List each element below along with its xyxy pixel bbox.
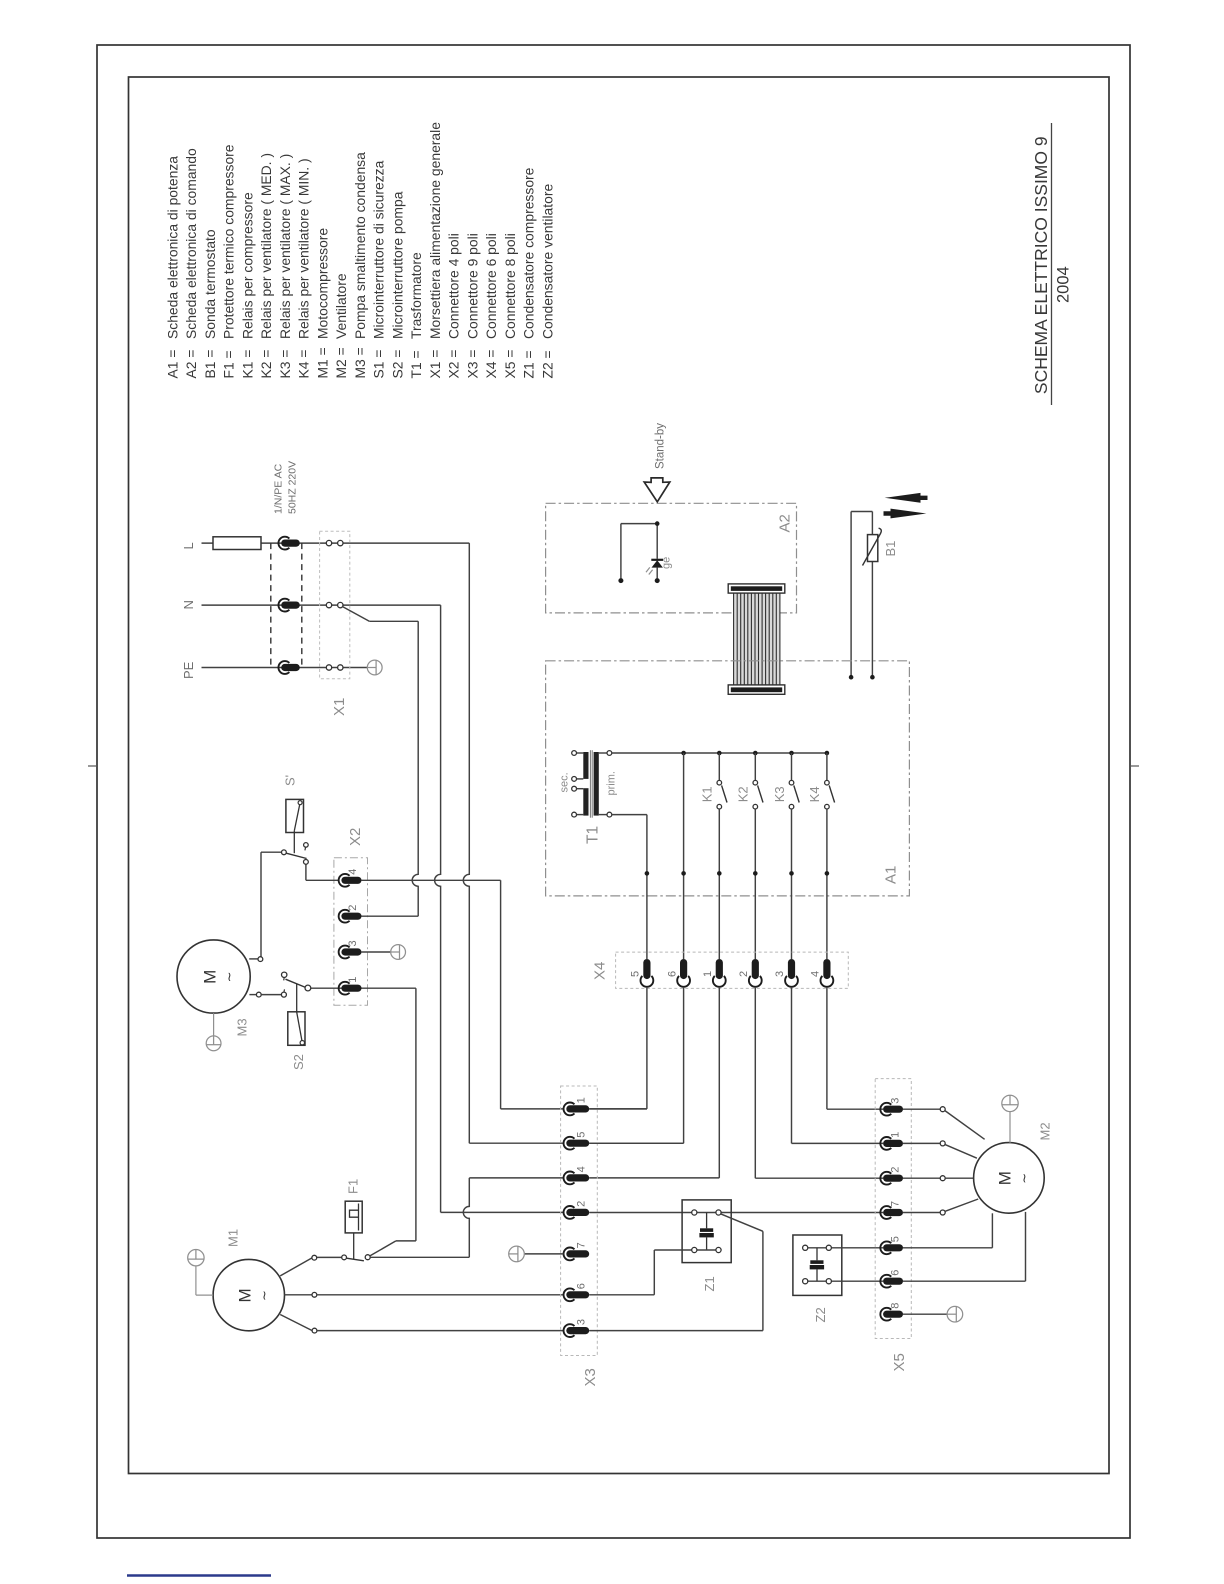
wire X2 pin3 to ground bbox=[362, 951, 391, 953]
connector X5 pin 5 bbox=[880, 1241, 891, 1254]
svg-text:4: 4 bbox=[810, 971, 822, 977]
wire L vertical bbox=[463, 543, 469, 1143]
LED ge bbox=[651, 559, 663, 561]
svg-text:sec.: sec. bbox=[559, 772, 571, 792]
motor M1 bbox=[213, 1259, 284, 1330]
connector X3 pin 2 bbox=[564, 1206, 575, 1219]
board A2 bbox=[546, 503, 797, 613]
wire X5 pin8 to ground bbox=[903, 1313, 947, 1315]
connector X4 pin 1 bbox=[713, 976, 726, 987]
svg-text:50HZ 220V: 50HZ 220V bbox=[287, 461, 299, 514]
svg-text:Ventilatore: Ventilatore bbox=[333, 273, 349, 339]
svg-text:M3 =: M3 = bbox=[352, 347, 368, 378]
junction A1 edge bbox=[789, 871, 794, 876]
svg-text:Condensatore ventilatore: Condensatore ventilatore bbox=[539, 184, 555, 339]
svg-text:M2 =: M2 = bbox=[333, 347, 349, 378]
svg-text:6: 6 bbox=[666, 971, 678, 977]
svg-text:4: 4 bbox=[576, 1166, 588, 1172]
svg-text:Scheda elettronica di comando: Scheda elettronica di comando bbox=[183, 148, 199, 339]
connector X4 pin 4 bbox=[821, 976, 834, 987]
junction A1 edge bbox=[645, 871, 650, 876]
capacitor Z2 box bbox=[793, 1235, 842, 1295]
connector X3 pin 6 bbox=[564, 1288, 575, 1301]
connector X3 pin 1 bbox=[564, 1103, 575, 1116]
wire riser X4 pin1 to K1 bbox=[718, 809, 720, 959]
svg-text:Relais per ventilatore ( MIN.: Relais per ventilatore ( MIN. ) bbox=[296, 158, 312, 339]
connector X2 pin 4 bbox=[339, 874, 350, 887]
svg-text:6: 6 bbox=[576, 1283, 588, 1289]
X1 terminals L bbox=[326, 540, 331, 545]
switch F1 contacts bbox=[317, 1256, 342, 1258]
wire Z1 bottom bbox=[654, 1249, 718, 1251]
svg-text:K2 =: K2 = bbox=[258, 350, 274, 379]
ground X2 pin3 bbox=[391, 945, 406, 960]
svg-text:K2: K2 bbox=[736, 786, 751, 802]
svg-text:Morsettiera alimentazione gene: Morsettiera alimentazione generale bbox=[427, 122, 443, 339]
svg-text:A2: A2 bbox=[777, 514, 794, 532]
X1 terminals N bbox=[326, 602, 331, 607]
page outer border bbox=[97, 45, 1130, 1538]
connector X5 pin 3 bbox=[880, 1103, 891, 1116]
svg-text:Connettore 6 poli: Connettore 6 poli bbox=[483, 233, 499, 339]
svg-text:K1: K1 bbox=[700, 786, 715, 802]
svg-text:2: 2 bbox=[890, 1167, 902, 1173]
svg-text:K3: K3 bbox=[772, 786, 787, 802]
legend row T1 bbox=[408, 252, 424, 378]
LED wiring in A2 bbox=[621, 523, 657, 525]
svg-text:S2 =: S2 = bbox=[389, 350, 405, 379]
svg-text:X3 =: X3 = bbox=[464, 350, 480, 379]
relay contact K3 bbox=[789, 753, 799, 809]
supply label 1/N/PE AC 50HZ 220V bbox=[273, 461, 299, 514]
wire riser X4 pin2 to K2 bbox=[754, 809, 756, 959]
Z2 terminals bbox=[803, 1245, 808, 1250]
svg-text:X2: X2 bbox=[347, 828, 364, 846]
wire X3 pin7 to ground bbox=[525, 1253, 564, 1255]
svg-text:M3: M3 bbox=[235, 1018, 250, 1036]
svg-text:5: 5 bbox=[630, 971, 642, 977]
wire L to X3 pin5 bbox=[469, 1142, 563, 1144]
wire Z2 top to X5 pin5 bbox=[805, 1247, 883, 1249]
capacitor Z2 element bbox=[816, 1248, 818, 1261]
svg-text:3: 3 bbox=[890, 1098, 902, 1104]
svg-text:S1 =: S1 = bbox=[371, 350, 387, 379]
switch S2 contacts bbox=[281, 992, 286, 997]
wire M3 bottom terminal bbox=[249, 994, 256, 996]
svg-text:M1: M1 bbox=[226, 1229, 241, 1247]
connector X3 pin 4 bbox=[564, 1172, 575, 1185]
junction A1 edge bbox=[717, 871, 722, 876]
wire X3 pin4 left vertical bbox=[463, 1178, 469, 1257]
junction dots A2 LED bbox=[655, 521, 660, 526]
wire L bbox=[202, 542, 470, 544]
wire F1 to X2 pin1 branch bbox=[370, 1241, 396, 1256]
legend row X4 bbox=[483, 233, 499, 378]
transformer T1 primary winding bbox=[594, 752, 599, 816]
thermal protector F1 bbox=[345, 1201, 362, 1233]
transformer T1 secondary terminals bbox=[576, 752, 583, 754]
svg-text:A1 =: A1 = bbox=[164, 350, 180, 379]
wire X4 pin3 to X5 pin1 bbox=[791, 987, 793, 1144]
svg-text:K4 =: K4 = bbox=[296, 350, 312, 379]
transformer T1 core bbox=[589, 750, 591, 818]
transformer T1 primary terminals bbox=[599, 752, 607, 754]
svg-text:1: 1 bbox=[347, 977, 359, 983]
svg-text:X5 =: X5 = bbox=[502, 350, 518, 379]
svg-text:Stand-by: Stand-by bbox=[655, 423, 667, 469]
svg-text:Motocompressore: Motocompressore bbox=[314, 228, 330, 339]
stand-by arrow bbox=[644, 478, 670, 502]
svg-text:7: 7 bbox=[576, 1242, 588, 1248]
connector X2 pin 1 bbox=[339, 982, 350, 995]
plug-socket PE bbox=[278, 661, 289, 674]
wire N branch vertical bbox=[412, 621, 418, 916]
svg-text:prim.: prim. bbox=[606, 771, 618, 795]
svg-text:1: 1 bbox=[576, 1097, 588, 1103]
wire X5 pin1 to M2 bbox=[903, 1142, 940, 1144]
svg-text:F1: F1 bbox=[346, 1179, 361, 1194]
plug-socket L bbox=[278, 537, 289, 550]
junction dots B1 to A1 bbox=[849, 675, 854, 680]
wire X3 pin4 left horizontal bbox=[469, 1177, 563, 1179]
legend row K1 bbox=[239, 192, 255, 378]
svg-text:A1: A1 bbox=[883, 866, 900, 884]
svg-text:1/N/PE AC: 1/N/PE AC bbox=[273, 463, 285, 514]
svg-text:ge: ge bbox=[661, 557, 673, 569]
dashed plug boundary bbox=[270, 543, 272, 667]
svg-text:M2: M2 bbox=[1038, 1122, 1053, 1140]
wire Z1 to X3 pin3 bbox=[721, 1214, 763, 1231]
svg-text:Sonda termostato: Sonda termostato bbox=[202, 229, 218, 339]
svg-text:X3: X3 bbox=[582, 1368, 599, 1386]
Z1 terminals bbox=[692, 1210, 697, 1215]
wire M1 middle terminal bbox=[285, 1294, 313, 1296]
centre tick right bbox=[1130, 765, 1139, 767]
legend row A2 bbox=[183, 148, 199, 379]
wire X3 pin2 to Z1 and X5 pin7 bbox=[589, 1212, 883, 1214]
wire X4 pin5 to X3 pin1 bbox=[646, 987, 648, 1109]
svg-text:B1: B1 bbox=[883, 541, 898, 557]
X1 terminals PE bbox=[326, 665, 331, 670]
legend row K2 bbox=[258, 153, 274, 379]
svg-text:∼: ∼ bbox=[257, 1290, 272, 1301]
junction rail bbox=[681, 751, 686, 756]
wire riser X4 pin4 to K4 bbox=[826, 809, 828, 959]
transformer T1 secondary winding bbox=[583, 752, 588, 779]
relay contact K1 bbox=[717, 753, 727, 809]
svg-text:PE: PE bbox=[181, 661, 196, 679]
svg-text:5: 5 bbox=[576, 1132, 588, 1138]
page inner border bbox=[129, 77, 1110, 1474]
ground PE bbox=[367, 660, 382, 675]
wire riser X4 pin6 to rail bbox=[683, 753, 685, 959]
svg-text:S': S' bbox=[283, 775, 298, 786]
svg-text:Pompa smaltimento condensa: Pompa smaltimento condensa bbox=[352, 152, 368, 339]
wire X3 pin1 to X4 riser bbox=[589, 1108, 647, 1110]
svg-text:T1 =: T1 = bbox=[408, 350, 424, 378]
wire X2pin4 vertical bbox=[500, 880, 502, 1109]
svg-text:∼: ∼ bbox=[221, 971, 236, 982]
svg-text:K4: K4 bbox=[807, 786, 822, 802]
capacitor Z1 box bbox=[682, 1200, 731, 1263]
svg-text:L: L bbox=[181, 542, 196, 549]
svg-text:Connettore 4 poli: Connettore 4 poli bbox=[446, 233, 462, 339]
connector X5 pin 7 bbox=[880, 1206, 891, 1219]
svg-text:X4 =: X4 = bbox=[483, 350, 499, 379]
svg-text:X4: X4 bbox=[592, 962, 609, 980]
legend row M1 bbox=[314, 228, 330, 379]
wire M3 top terminal bbox=[249, 958, 258, 960]
svg-text:Protettore termico compressore: Protettore termico compressore bbox=[221, 144, 237, 339]
junction rail bbox=[753, 751, 758, 756]
ground X3 pin7 bbox=[509, 1246, 525, 1262]
blue footer mark bbox=[127, 1574, 271, 1577]
wire X2 pin1 riser bbox=[415, 988, 417, 1241]
junction A1 edge bbox=[681, 871, 686, 876]
svg-text:2: 2 bbox=[347, 905, 359, 911]
microswitch S2 body bbox=[296, 984, 298, 1012]
centre tick left bbox=[88, 765, 97, 767]
junction rail bbox=[717, 751, 722, 756]
wire B1 right bbox=[871, 512, 873, 535]
plug-socket N bbox=[278, 599, 289, 612]
svg-text:N: N bbox=[181, 600, 196, 609]
connector X5 pin 1 bbox=[880, 1137, 891, 1150]
connector X3 pin 5 bbox=[564, 1137, 575, 1150]
connector X3 outline bbox=[561, 1086, 598, 1356]
svg-text:M: M bbox=[236, 1288, 255, 1302]
svg-text:2: 2 bbox=[576, 1201, 588, 1207]
wire N vertical bbox=[435, 605, 441, 1212]
wire F1 to X3 pin4 branch bbox=[370, 1256, 469, 1258]
connector X2 pin 3 bbox=[339, 946, 350, 959]
legend row X1 bbox=[427, 122, 443, 379]
wire X4 pin4 to X5 pin3 bbox=[826, 987, 828, 1109]
svg-text:3: 3 bbox=[774, 971, 786, 977]
wire M3 to S-prime bbox=[260, 852, 262, 956]
wire X4 pin2 to X5 pin2 bbox=[754, 987, 756, 1178]
svg-text:Relais per ventilatore ( MED.: Relais per ventilatore ( MED. ) bbox=[258, 153, 274, 339]
svg-text:1: 1 bbox=[702, 971, 714, 977]
svg-text:6: 6 bbox=[890, 1270, 902, 1276]
wire X3 pin6 right bbox=[589, 1294, 654, 1296]
svg-text:∼: ∼ bbox=[1017, 1173, 1032, 1184]
wire F1 stem bbox=[353, 1233, 355, 1259]
legend row X5 bbox=[502, 233, 518, 378]
svg-text:Relais per compressore: Relais per compressore bbox=[239, 192, 255, 339]
wire B1 left bbox=[850, 512, 852, 678]
connector X4 pin 2 bbox=[749, 976, 762, 987]
wire X2 pin4 feed bbox=[305, 864, 307, 880]
svg-text:1: 1 bbox=[890, 1132, 902, 1138]
svg-text:M1 =: M1 = bbox=[314, 347, 330, 378]
legend row F1 bbox=[221, 144, 237, 378]
svg-text:K1 =: K1 = bbox=[239, 350, 255, 379]
wire X4 pin6 to X3 pin5 bbox=[683, 987, 685, 1143]
svg-text:Microinterruttore di sicurezza: Microinterruttore di sicurezza bbox=[371, 160, 387, 339]
svg-text:7: 7 bbox=[890, 1201, 902, 1207]
wire M1 bottom to X3 pin3 bbox=[317, 1330, 564, 1332]
legend row M2 bbox=[333, 273, 349, 378]
svg-text:5: 5 bbox=[890, 1236, 902, 1242]
sensor arrow upper (left) bbox=[885, 493, 928, 503]
capacitor Z1 element bbox=[706, 1213, 708, 1229]
title SCHEMA ELETTRICO ISSIMO 9 bbox=[1031, 123, 1052, 405]
wire PE bbox=[202, 667, 368, 669]
motor M2 bbox=[974, 1143, 1045, 1214]
connector X4 pin 6 bbox=[677, 976, 690, 987]
motor M3 bbox=[177, 940, 250, 1013]
svg-text:F1 =: F1 = bbox=[221, 350, 237, 378]
wire X2 pin2 bbox=[362, 915, 419, 917]
svg-text:SCHEMA ELETTRICO ISSIMO 9: SCHEMA ELETTRICO ISSIMO 9 bbox=[1031, 136, 1051, 394]
legend row S2 bbox=[389, 191, 405, 378]
terminal block X1 bbox=[320, 531, 350, 678]
svg-text:T1: T1 bbox=[585, 826, 602, 844]
connector X4 pin 3 bbox=[785, 976, 798, 987]
ribbon cable A2-A1 bbox=[728, 584, 785, 694]
svg-text:Microinterruttore pompa: Microinterruttore pompa bbox=[389, 191, 405, 339]
junction rail bbox=[825, 751, 830, 756]
svg-text:A2 =: A2 = bbox=[183, 350, 199, 379]
svg-text:Connettore 9 poli: Connettore 9 poli bbox=[464, 233, 480, 339]
wire M1 bottom terminal bbox=[280, 1315, 312, 1331]
connector X3 pin 7 bbox=[564, 1248, 575, 1261]
connector X5 pin 6 bbox=[880, 1275, 891, 1288]
wire X5 pin2 to M2 bbox=[903, 1177, 940, 1179]
svg-text:3: 3 bbox=[576, 1319, 588, 1325]
wire X4 pin1 to X3 pin4 bbox=[718, 987, 720, 1178]
legend row K3 bbox=[277, 154, 293, 379]
svg-text:8: 8 bbox=[890, 1303, 902, 1309]
wire Z2 bottom to X5 pin6 bbox=[805, 1280, 883, 1282]
svg-text:Z1 =: Z1 = bbox=[521, 350, 537, 378]
svg-text:X1: X1 bbox=[331, 698, 348, 716]
wire N to X3 pin2 bbox=[441, 1211, 564, 1213]
connector X5 pin 2 bbox=[880, 1172, 891, 1185]
microswitch S-prime body bbox=[286, 799, 304, 832]
wire X5 pin7 to M2 bbox=[903, 1212, 940, 1214]
svg-text:M: M bbox=[996, 1171, 1015, 1185]
junction rail bbox=[789, 751, 794, 756]
legend row B1 bbox=[202, 229, 218, 378]
legend row X3 bbox=[464, 233, 480, 378]
svg-text:Z2: Z2 bbox=[813, 1307, 828, 1322]
sensor arrow lower (right) bbox=[884, 509, 927, 519]
relay contact K2 bbox=[753, 753, 763, 809]
wire M1 top terminal bbox=[280, 1258, 312, 1276]
wire X2 pin4 to X3 pin1 bbox=[362, 879, 501, 881]
junction A1 edge bbox=[825, 871, 830, 876]
wire T1 primary bottom bbox=[612, 814, 647, 816]
wire N switch branch bbox=[342, 606, 369, 621]
switch S-prime contacts bbox=[282, 850, 287, 855]
fuse (mains, on L) bbox=[213, 537, 261, 550]
svg-text:M: M bbox=[200, 970, 219, 984]
connector X5 outline bbox=[875, 1079, 911, 1339]
svg-text:S2: S2 bbox=[291, 1054, 306, 1070]
wire X5 pin6 to M2 bbox=[903, 1280, 1026, 1282]
svg-text:Relais per ventilatore ( MAX.: Relais per ventilatore ( MAX. ) bbox=[277, 154, 293, 339]
legend row M3 bbox=[352, 152, 368, 379]
legend row K4 bbox=[296, 158, 312, 378]
relay contact K4 bbox=[825, 753, 835, 809]
wire A1 rail bbox=[612, 752, 827, 754]
legend row Z2 bbox=[539, 184, 555, 379]
svg-text:Z2 =: Z2 = bbox=[539, 350, 555, 378]
svg-text:3: 3 bbox=[347, 940, 359, 946]
connector X2 pin 2 bbox=[339, 910, 350, 923]
legend row A1 bbox=[164, 156, 180, 379]
board A1 bbox=[546, 661, 910, 896]
junction A1 edge bbox=[753, 871, 758, 876]
legend row S1 bbox=[371, 160, 387, 378]
svg-text:Z1: Z1 bbox=[702, 1276, 717, 1291]
legend row Z1 bbox=[521, 167, 537, 378]
svg-text:4: 4 bbox=[347, 869, 359, 875]
wire riser X4 pin5 to T1 bbox=[646, 815, 648, 959]
wire N bbox=[202, 604, 441, 606]
svg-text:B1 =: B1 = bbox=[202, 350, 218, 379]
ground M1 bbox=[188, 1250, 204, 1266]
LED arrows (grey) bbox=[649, 570, 653, 575]
wire X5 pin5 to M2 bbox=[903, 1247, 992, 1249]
connector X4 outline bbox=[616, 952, 849, 988]
svg-text:Condensatore compressore: Condensatore compressore bbox=[521, 167, 537, 339]
wire X2 pin1 bbox=[311, 987, 416, 989]
connector X2 outline bbox=[334, 858, 368, 1005]
wire X3 pin5 to X4 riser bbox=[589, 1142, 683, 1144]
ground X5 pin8 bbox=[947, 1306, 963, 1322]
connector X3 pin 3 bbox=[564, 1324, 575, 1337]
thermistor B1 bbox=[868, 535, 878, 562]
ground M3 bbox=[213, 1013, 215, 1036]
svg-text:Scheda elettronica di potenza: Scheda elettronica di potenza bbox=[164, 156, 180, 339]
svg-text:2: 2 bbox=[738, 971, 750, 977]
wire riser X4 pin3 to K3 bbox=[791, 809, 793, 959]
svg-text:K3 =: K3 = bbox=[277, 350, 293, 379]
svg-text:X5: X5 bbox=[891, 1353, 908, 1371]
connector X4 pin 5 bbox=[641, 976, 654, 987]
svg-text:X1 =: X1 = bbox=[427, 350, 443, 379]
svg-text:2004: 2004 bbox=[1055, 266, 1073, 303]
svg-text:Connettore 8 poli: Connettore 8 poli bbox=[502, 233, 518, 339]
title year 2004 bbox=[1055, 266, 1073, 303]
connector X5 pin 8 bbox=[880, 1308, 891, 1321]
wire M1 middle to X3 pin6 bbox=[317, 1294, 564, 1296]
ground M2 bbox=[1009, 1112, 1011, 1143]
wire X5 pin3 to M2 bbox=[903, 1108, 940, 1110]
legend row X2 bbox=[446, 233, 462, 378]
svg-text:X2 =: X2 = bbox=[446, 350, 462, 379]
svg-text:Trasformatore: Trasformatore bbox=[408, 252, 424, 339]
wire X3 pin3 right bbox=[589, 1330, 763, 1332]
